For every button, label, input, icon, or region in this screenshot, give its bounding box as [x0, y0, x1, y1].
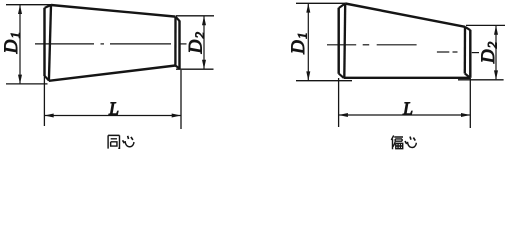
D2 dimension line: [495, 26, 497, 79]
body bottom outline: [49, 66, 175, 81]
body small end top chamfer: [465, 27, 470, 30]
body small end face: [469, 30, 471, 78]
label D2: [186, 31, 208, 54]
body large end top chamfer: [339, 4, 345, 9]
body bottom outline: [344, 77, 471, 79]
D1 top extension line: [6, 4, 51, 6]
body large end bottom chamfer: [339, 74, 344, 78]
D2 dimension line: [203, 16, 205, 68]
D1 top extension line: [296, 2, 345, 4]
D1 bottom extension line: [6, 83, 48, 85]
L dimension line: [45, 115, 181, 117]
L dimension line: [339, 114, 470, 116]
L left extension line: [338, 78, 340, 127]
label D1: [1, 32, 23, 54]
L right extension line: [180, 70, 182, 129]
L right extension line: [469, 78, 471, 128]
body large end top chamfer: [45, 5, 51, 8]
body small end tangency line: [464, 27, 467, 74]
body small end bottom chamfer: [175, 66, 179, 69]
body top outline: [345, 4, 465, 27]
centerline: [35, 43, 187, 45]
body large end face: [43, 8, 45, 76]
D1 bottom extension line: [296, 80, 352, 82]
svg-text:L: L: [402, 99, 413, 119]
L left extension line: [43, 76, 45, 126]
body large end bottom chamfer: [45, 76, 50, 81]
body large end tangency line: [49, 5, 51, 81]
body small end top chamfer: [176, 17, 180, 21]
D2 top extension line: [466, 24, 505, 26]
body top outline: [51, 5, 176, 17]
svg-text:L: L: [108, 99, 119, 119]
caption 同: [108, 135, 119, 148]
label D2: [478, 41, 500, 64]
D1 dimension line: [19, 5, 21, 83]
body large end face: [337, 8, 339, 74]
D2 bottom extension line: [458, 79, 504, 81]
small-end centerline: [437, 51, 479, 54]
D1 dimension line: [307, 4, 309, 80]
body small end tangency line: [174, 17, 176, 66]
label D1: [288, 32, 310, 54]
body large end tangency line: [343, 4, 346, 78]
caption 心: [405, 137, 416, 148]
D2 top extension line: [176, 15, 214, 17]
large-end centerline: [327, 44, 417, 46]
D2 bottom extension line: [176, 68, 214, 70]
caption 心: [123, 136, 134, 147]
caption 偏: [391, 136, 403, 150]
body small end bottom chamfer: [465, 74, 471, 78]
body small end face: [178, 21, 180, 69]
